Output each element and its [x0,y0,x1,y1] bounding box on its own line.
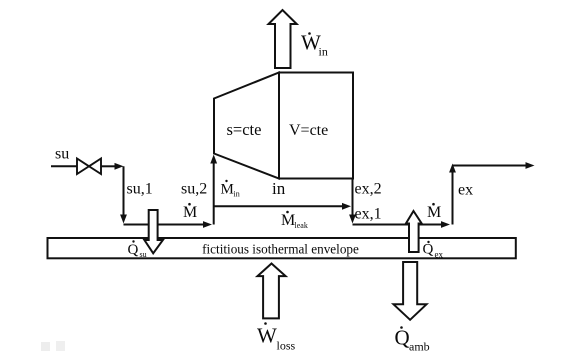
svg-text:ex,1: ex,1 [355,206,382,223]
wire M_leak [214,205,343,207]
wire su,2 vertical up arrow [213,163,215,225]
svg-text:su: su [55,146,69,163]
svg-text:ex: ex [435,250,444,260]
block arrow Q_su [144,210,163,253]
svg-text:loss: loss [277,339,296,353]
block arrow W_loss [258,264,286,319]
svg-text:ex,2: ex,2 [355,181,382,198]
svg-text:in: in [319,45,328,59]
watermark icons [41,342,50,351]
svg-text:Q: Q [128,242,139,258]
valve [77,159,89,175]
svg-text:su,2: su,2 [181,181,207,198]
svg-text:in: in [272,179,286,198]
svg-text:amb: amb [409,340,430,354]
svg-text:Q: Q [423,242,434,258]
wire valve to corner [101,165,116,167]
wire ex,2 vertical down [352,179,354,216]
svg-text:fictitious isothermal envelope: fictitious isothermal envelope [202,242,359,257]
wire su,1 to su,2 [124,224,205,226]
block arrow Q_amb [394,262,427,320]
svg-text:s=cte: s=cte [227,120,262,139]
svg-text:W: W [257,324,277,348]
block arrow W_in [269,10,297,68]
svg-text:M: M [281,212,295,229]
svg-text:M: M [221,182,234,198]
svg-text:ex: ex [458,182,473,199]
trapezoid s=cte section [214,73,279,179]
svg-text:in: in [234,190,240,199]
svg-text:leak: leak [295,221,308,230]
wire ex bottom horizontal [353,224,443,226]
svg-text:Q: Q [395,326,410,350]
svg-text:M: M [183,204,197,221]
svg-text:su: su [140,250,147,259]
rectangle V=cte section [279,73,353,179]
svg-text:su,1: su,1 [127,181,153,198]
envelope box [48,238,516,258]
wire su inlet [51,165,77,167]
svg-text:M: M [427,204,441,221]
block arrow Q_ex [406,211,422,252]
svg-text:V=cte: V=cte [289,122,328,139]
wire ex vertical up [452,172,454,225]
wire ex top horizontal [453,165,527,167]
wire su,1 vertical [123,166,125,215]
